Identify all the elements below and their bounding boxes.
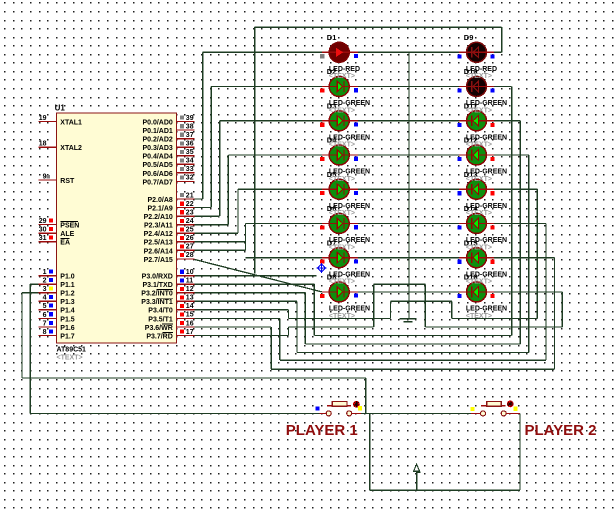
- svg-text:LED-GREEN: LED-GREEN: [466, 134, 507, 141]
- svg-text:8: 8: [43, 329, 47, 336]
- svg-text:19: 19: [39, 115, 47, 122]
- svg-text:35: 35: [186, 149, 194, 156]
- svg-text:<TEXT>: <TEXT>: [329, 73, 355, 80]
- svg-text:P3.5/T1: P3.5/T1: [148, 316, 173, 323]
- svg-text:P0.5/AD5: P0.5/AD5: [142, 162, 172, 169]
- svg-text:<TEXT>: <TEXT>: [329, 107, 355, 114]
- svg-text:24: 24: [186, 218, 194, 225]
- svg-text:<TEXT>: <TEXT>: [466, 279, 492, 286]
- svg-text:14: 14: [186, 303, 194, 310]
- svg-text:LED-GREEN: LED-GREEN: [466, 306, 507, 313]
- svg-text:LED-RED: LED-RED: [329, 66, 360, 73]
- svg-text:<TEXT>: <TEXT>: [329, 142, 355, 149]
- svg-text:17: 17: [186, 329, 194, 336]
- svg-text:P1.0: P1.0: [60, 274, 75, 281]
- svg-text:P0.4/AD4: P0.4/AD4: [142, 154, 172, 161]
- svg-text:18: 18: [39, 141, 47, 148]
- svg-text:P0.3/AD3: P0.3/AD3: [142, 145, 172, 152]
- svg-text:LED-GREEN: LED-GREEN: [329, 237, 370, 244]
- svg-text:<TEXT>: <TEXT>: [466, 176, 492, 183]
- svg-text:27: 27: [186, 244, 194, 251]
- svg-text:LED-GREEN: LED-GREEN: [466, 203, 507, 210]
- svg-text:28: 28: [186, 252, 194, 259]
- svg-text:P0.1/AD1: P0.1/AD1: [142, 128, 172, 135]
- svg-text:LED-RED: LED-RED: [466, 66, 497, 73]
- svg-text:ALE: ALE: [60, 231, 74, 238]
- svg-text:22: 22: [186, 201, 194, 208]
- svg-text:P2.3/A11: P2.3/A11: [144, 223, 173, 230]
- svg-text:<TEXT>: <TEXT>: [329, 244, 355, 251]
- svg-text:LED-GREEN: LED-GREEN: [466, 100, 507, 107]
- svg-text:LED-GREEN: LED-GREEN: [466, 271, 507, 278]
- svg-text:5: 5: [43, 303, 47, 310]
- svg-text:P2.7/A15: P2.7/A15: [144, 257, 173, 264]
- svg-text:<TEXT>: <TEXT>: [329, 313, 355, 320]
- svg-text:P2.4/A12: P2.4/A12: [144, 231, 173, 238]
- svg-text:P0.7/AD7: P0.7/AD7: [142, 179, 172, 186]
- svg-text:EA: EA: [60, 240, 70, 247]
- svg-text:P0.0/AD0: P0.0/AD0: [142, 119, 172, 126]
- svg-text:<TEXT>: <TEXT>: [329, 210, 355, 217]
- svg-text:LED-GREEN: LED-GREEN: [466, 237, 507, 244]
- svg-text:P1.2: P1.2: [60, 291, 75, 298]
- svg-text:RST: RST: [60, 178, 75, 185]
- svg-text:P3.3/INT1: P3.3/INT1: [141, 299, 173, 306]
- svg-text:P1.3: P1.3: [60, 299, 75, 306]
- svg-text:P2.0/A8: P2.0/A8: [148, 197, 173, 204]
- svg-text:LED-GREEN: LED-GREEN: [329, 134, 370, 141]
- svg-text:P3.2/INT0: P3.2/INT0: [141, 291, 173, 298]
- svg-text:<TEXT>: <TEXT>: [466, 313, 492, 320]
- svg-text:XTAL1: XTAL1: [60, 119, 82, 126]
- svg-text:<TEXT>: <TEXT>: [466, 244, 492, 251]
- svg-text:D1: D1: [327, 33, 337, 42]
- svg-text:<TEXT>: <TEXT>: [466, 107, 492, 114]
- svg-text:7: 7: [43, 320, 47, 327]
- svg-text:<TEXT>: <TEXT>: [466, 210, 492, 217]
- svg-text:U1: U1: [55, 104, 66, 113]
- svg-text:LED-GREEN: LED-GREEN: [329, 271, 370, 278]
- svg-text:P2.1/A9: P2.1/A9: [148, 205, 173, 212]
- svg-text:32: 32: [186, 175, 194, 182]
- svg-text:P3.7/RD: P3.7/RD: [146, 333, 172, 340]
- svg-text:38: 38: [186, 123, 194, 130]
- svg-text:PLAYER 2: PLAYER 2: [525, 422, 597, 439]
- svg-text:15: 15: [186, 312, 194, 319]
- svg-text:34: 34: [186, 158, 194, 165]
- svg-text:P3.4/T0: P3.4/T0: [148, 308, 173, 315]
- svg-text:37: 37: [186, 132, 194, 139]
- svg-text:P1.1: P1.1: [60, 282, 75, 289]
- svg-text:P1.5: P1.5: [60, 316, 75, 323]
- svg-text:P0.6/AD6: P0.6/AD6: [142, 171, 172, 178]
- svg-text:PLAYER 1: PLAYER 1: [286, 422, 358, 439]
- svg-text:39: 39: [186, 115, 194, 122]
- svg-text:D9: D9: [464, 33, 474, 42]
- svg-text:LED-GREEN: LED-GREEN: [466, 169, 507, 176]
- svg-text:36: 36: [186, 140, 194, 147]
- svg-text:P2.2/A10: P2.2/A10: [144, 214, 173, 221]
- svg-text:16: 16: [186, 320, 194, 327]
- svg-text:P3.1/TXD: P3.1/TXD: [142, 282, 172, 289]
- svg-text:6: 6: [43, 312, 47, 319]
- svg-text:2: 2: [43, 278, 47, 285]
- svg-text:LED-GREEN: LED-GREEN: [329, 203, 370, 210]
- svg-text:<TEXT>: <TEXT>: [466, 142, 492, 149]
- svg-text:9: 9: [43, 173, 47, 180]
- svg-text:P1.7: P1.7: [60, 333, 75, 340]
- svg-text:P2.6/A14: P2.6/A14: [144, 248, 173, 255]
- svg-text:P0.2/AD2: P0.2/AD2: [142, 137, 172, 144]
- svg-text:29: 29: [39, 218, 47, 225]
- svg-text:1: 1: [43, 269, 47, 276]
- svg-text:11: 11: [186, 277, 194, 284]
- svg-text:P1.6: P1.6: [60, 325, 75, 332]
- svg-text:3: 3: [43, 286, 47, 293]
- svg-text:<TEXT>: <TEXT>: [466, 73, 492, 80]
- svg-text:<TEXT>: <TEXT>: [329, 279, 355, 286]
- svg-text:4: 4: [43, 295, 47, 302]
- svg-text:<TEXT>: <TEXT>: [329, 176, 355, 183]
- svg-text:33: 33: [186, 166, 194, 173]
- svg-text:LED-GREEN: LED-GREEN: [329, 306, 370, 313]
- svg-text:P3.0/RXD: P3.0/RXD: [142, 274, 173, 281]
- svg-text:<TEXT>: <TEXT>: [57, 354, 83, 361]
- svg-text:P3.6/WR: P3.6/WR: [145, 325, 173, 332]
- svg-text:30: 30: [39, 227, 47, 234]
- svg-text:12: 12: [186, 286, 194, 293]
- svg-text:21: 21: [186, 192, 194, 199]
- svg-text:XTAL2: XTAL2: [60, 145, 82, 152]
- svg-text:23: 23: [186, 209, 194, 216]
- svg-text:26: 26: [186, 235, 194, 242]
- svg-text:25: 25: [186, 227, 194, 234]
- svg-text:P2.5/A13: P2.5/A13: [144, 240, 173, 247]
- svg-text:13: 13: [186, 295, 194, 302]
- svg-text:31: 31: [39, 235, 47, 242]
- svg-text:LED-GREEN: LED-GREEN: [329, 100, 370, 107]
- svg-text:PSEN: PSEN: [60, 222, 79, 229]
- svg-text:AT89C51: AT89C51: [57, 347, 87, 354]
- svg-text:10: 10: [186, 269, 194, 276]
- svg-text:LED-GREEN: LED-GREEN: [329, 169, 370, 176]
- svg-text:P1.4: P1.4: [60, 308, 75, 315]
